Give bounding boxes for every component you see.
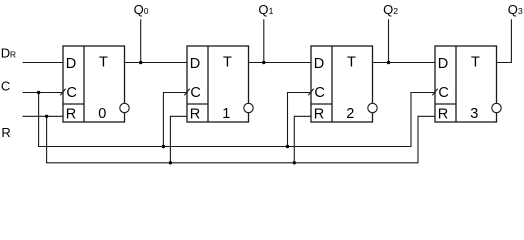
output label Q1	[258, 2, 273, 17]
svg-text:R: R	[1, 125, 10, 140]
svg-text:1: 1	[269, 6, 274, 16]
svg-text:R: R	[10, 50, 16, 60]
svg-text:T: T	[223, 54, 232, 70]
svg-text:T: T	[347, 54, 356, 70]
svg-text:C: C	[314, 85, 324, 101]
wire Q3 vertical and elbow	[497, 19, 512, 62]
wire Q1 vertical	[263, 19, 265, 62]
wire reset bus riser to FF1 R	[170, 116, 187, 163]
svg-text:T: T	[471, 54, 480, 70]
junction reset bus at FF2	[293, 161, 296, 164]
junction Q1	[262, 61, 265, 64]
wire R input	[23, 115, 64, 117]
svg-text:T: T	[99, 54, 108, 70]
svg-text:D: D	[438, 56, 448, 72]
svg-text:D: D	[314, 56, 324, 72]
output label Q0	[134, 2, 149, 17]
svg-text:R: R	[438, 106, 448, 122]
output label Q3	[508, 2, 523, 17]
wire reset bus riser to FF3 R	[418, 116, 435, 163]
svg-text:R: R	[314, 106, 324, 122]
svg-text:C: C	[438, 85, 448, 101]
svg-text:C: C	[190, 85, 200, 101]
svg-text:Q: Q	[508, 2, 518, 17]
svg-text:D: D	[1, 45, 10, 60]
svg-text:3: 3	[518, 6, 523, 16]
svg-text:C: C	[66, 85, 76, 101]
svg-text:1: 1	[222, 106, 230, 122]
wire DR input	[23, 62, 64, 64]
junction C wire tap	[37, 91, 40, 94]
svg-text:2: 2	[346, 106, 354, 122]
junction clock bus at FF2	[286, 145, 289, 148]
wire C input	[23, 92, 64, 94]
junction Q2	[387, 61, 390, 64]
reset bus (lower horizontal)	[47, 162, 418, 164]
svg-text:2: 2	[393, 6, 398, 16]
wire FF2 output to FF3 D	[373, 62, 436, 64]
wire clock bus riser to FF3 C	[411, 93, 435, 148]
output label Q2	[383, 2, 398, 17]
svg-text:0: 0	[144, 6, 149, 16]
input label DR	[1, 45, 16, 60]
junction reset bus at FF1	[169, 161, 172, 164]
svg-text:3: 3	[470, 106, 478, 122]
svg-text:0: 0	[98, 106, 106, 122]
svg-text:Q: Q	[258, 2, 268, 17]
wire FF1 output to FF2 D	[249, 62, 312, 64]
wire Q2 vertical	[388, 19, 390, 62]
flip-flop U4 (stage 3)	[432, 46, 501, 122]
svg-text:Q: Q	[134, 2, 144, 17]
wire C drop to clock bus	[38, 93, 40, 148]
flip-flop U2 (stage 1)	[184, 46, 253, 122]
svg-text:R: R	[190, 106, 200, 122]
junction clock bus at FF1	[162, 145, 165, 148]
svg-text:D: D	[190, 56, 200, 72]
junction R wire tap	[45, 115, 48, 118]
clock bus (upper horizontal)	[39, 146, 411, 148]
flip-flop U1 (stage 0)	[60, 46, 129, 122]
wire reset bus riser to FF2 R	[294, 116, 311, 163]
wire clock bus riser to FF2 C	[288, 93, 312, 147]
svg-text:D: D	[66, 56, 76, 72]
flip-flop U3 (stage 2)	[308, 46, 377, 122]
svg-text:Q: Q	[383, 2, 393, 17]
svg-text:R: R	[66, 106, 76, 122]
wire Q0 vertical	[140, 19, 142, 62]
wire FF0 output to FF1 D	[125, 62, 188, 64]
junction Q0	[139, 61, 142, 64]
wire clock bus riser to FF1 C	[163, 93, 187, 147]
wire R drop to reset bus	[46, 116, 48, 163]
svg-text:C: C	[1, 79, 10, 94]
